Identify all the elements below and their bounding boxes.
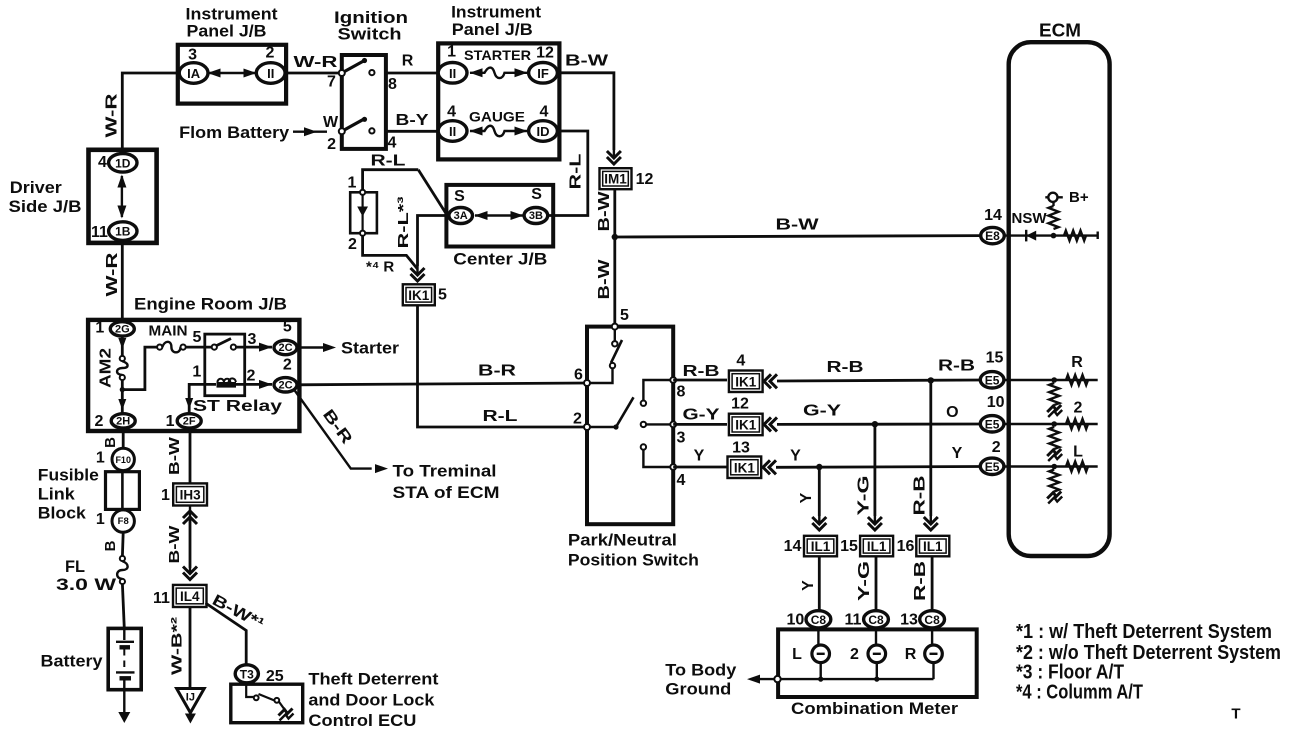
ground hatch row3: [1047, 492, 1061, 499]
junction Y drop: [816, 464, 822, 470]
svg-text:IM1: IM1: [604, 172, 627, 187]
arrow into IK1 row3: [763, 460, 770, 474]
svg-text:E5: E5: [985, 373, 1000, 387]
ignition switch upper lever: [345, 61, 364, 72]
connector C8 (#2): [864, 611, 889, 628]
connector 2H: [111, 414, 135, 428]
svg-text:Panel J/B: Panel J/B: [452, 20, 533, 39]
svg-text:Link: Link: [38, 485, 76, 504]
svg-text:R-B: R-B: [827, 359, 864, 376]
arrow into IL1 #2: [868, 523, 882, 530]
svg-text:Position Switch: Position Switch: [568, 550, 699, 569]
connector 1B: [109, 222, 137, 241]
svg-text:IA: IA: [187, 66, 201, 81]
svg-text:12: 12: [536, 45, 554, 62]
svg-text:3.0 W: 3.0 W: [56, 575, 117, 594]
wire W-R from II to ignition switch pin 7: [285, 72, 342, 75]
wire B-W to ECM E8: [615, 236, 981, 237]
fuse F8: [112, 510, 134, 532]
connector IL1 (#3): [916, 536, 949, 557]
svg-text:4: 4: [447, 104, 456, 121]
svg-text:2C: 2C: [278, 342, 292, 354]
svg-text:L: L: [792, 646, 802, 663]
connector IA: [179, 63, 208, 84]
svg-text:Starter: Starter: [341, 339, 399, 358]
svg-text:ST Relay: ST Relay: [193, 398, 282, 415]
PNP throw contact R: [641, 401, 646, 406]
wire R-B drop to IL1: [929, 380, 932, 516]
wire Y from E5 to IK1 row3: [776, 465, 982, 469]
svg-text:15: 15: [840, 538, 858, 555]
connector ID: [529, 121, 558, 142]
svg-text:16: 16: [897, 538, 915, 555]
connector 2C (relay row): [274, 378, 297, 392]
wire B-W from IF to IM1: [557, 73, 614, 150]
svg-text:R: R: [402, 53, 414, 70]
svg-text:1: 1: [96, 450, 105, 467]
ignition switch box: [342, 55, 386, 149]
svg-text:4: 4: [388, 135, 397, 152]
svg-text:W-R: W-R: [104, 252, 121, 297]
svg-text:14: 14: [984, 207, 1002, 224]
wire B-W*1 from IL4 to T3: [206, 603, 247, 665]
wire from filter pin 2 to IK1 (*4 R path): [363, 236, 418, 269]
svg-text:R-B: R-B: [938, 358, 975, 375]
svg-text:IL1: IL1: [923, 539, 943, 554]
svg-text:Control ECU: Control ECU: [308, 711, 416, 730]
internal link arrow 1D-1B: [121, 176, 123, 217]
ground arrow below IJ: [185, 714, 196, 724]
arrow into IK1 row1: [764, 374, 771, 388]
svg-text:10: 10: [987, 394, 1005, 411]
resistor in E8 row: [1064, 231, 1086, 241]
junction block: Driver Side J/B box: [89, 150, 157, 243]
svg-text:2: 2: [348, 236, 357, 253]
PNP pin 6 contact: [584, 380, 590, 386]
wire battery to ground: [123, 690, 125, 713]
wire 2C to Starter arrow: [297, 346, 327, 348]
resistor in row2: [1066, 419, 1088, 429]
svg-text:W-R: W-R: [294, 54, 339, 71]
ST relay coil: [217, 382, 237, 388]
svg-text:GAUGE: GAUGE: [469, 109, 525, 125]
connector 2G: [110, 322, 134, 336]
indicator lamp L: [812, 645, 830, 663]
svg-text:B-R: B-R: [478, 363, 517, 380]
wire B from 2H to F10: [122, 428, 125, 449]
svg-text:R-L: R-L: [483, 408, 518, 425]
svg-text:Center J/B: Center J/B: [453, 250, 547, 269]
svg-text:B: B: [102, 540, 119, 551]
junction block: Engine Room J/B box: [88, 320, 299, 431]
fuse F10: [112, 448, 134, 470]
svg-text:IL4: IL4: [180, 589, 200, 604]
svg-text:R-B: R-B: [683, 363, 720, 380]
svg-text:2: 2: [266, 45, 275, 62]
B+ terminal: [1048, 193, 1057, 202]
svg-text:13: 13: [732, 440, 750, 457]
connector IL1 (#2): [860, 536, 893, 557]
svg-text:*⁴ R: *⁴ R: [366, 259, 394, 276]
svg-text:Y-G: Y-G: [856, 476, 873, 516]
connector II pin 1 (starter row): [438, 63, 467, 84]
ST relay switch contact left: [212, 345, 217, 350]
arrow into IL1 #3: [924, 523, 938, 530]
ground bus in combination meter: [820, 663, 822, 680]
wire coil to 2C (relay row): [236, 383, 272, 386]
wire to terminal STA of ECM: [294, 390, 372, 469]
svg-text:Panel J/B: Panel J/B: [187, 22, 267, 41]
wire E8 row inside ECM: [1003, 234, 1098, 236]
svg-text:B-Y: B-Y: [396, 112, 429, 129]
arrow into IL1 #1: [812, 523, 826, 530]
svg-text:6: 6: [574, 367, 583, 384]
svg-text:II: II: [449, 124, 456, 139]
svg-text:IK1: IK1: [735, 417, 757, 432]
theft ECU internal switch: [246, 683, 253, 697]
arrow down into IL4: [183, 573, 197, 580]
junction row2 divider: [1051, 421, 1057, 427]
body ground junction: [774, 676, 780, 682]
wire 2G down to AM2 fusible link: [121, 336, 124, 356]
svg-text:2C: 2C: [278, 379, 292, 391]
svg-text:IL1: IL1: [811, 539, 831, 554]
svg-text:Y: Y: [694, 448, 705, 465]
svg-text:ECM: ECM: [1039, 21, 1081, 41]
svg-text:Switch: Switch: [338, 25, 402, 44]
svg-text:8: 8: [388, 76, 397, 93]
junction block: Instrument Panel J/B (left) box: [178, 45, 286, 104]
svg-text:1: 1: [95, 320, 104, 337]
ignition switch upper pole contact pin 7: [339, 70, 345, 76]
component: Park/Neutral Position Switch box: [587, 327, 673, 525]
arrow into IM1: [607, 157, 621, 164]
component: Combination Meter box: [778, 629, 977, 697]
ground hatch row1: [1047, 405, 1061, 412]
wire B-W from IM1 down to park/neutral pin 5: [613, 189, 616, 324]
svg-text:5: 5: [283, 319, 292, 336]
PNP pin 8 contact: [670, 377, 676, 383]
svg-text:C8: C8: [868, 613, 884, 627]
svg-text:8: 8: [677, 384, 686, 401]
GAUGE internal link wave: [470, 126, 527, 137]
connector IL4: [173, 585, 207, 607]
svg-text:STARTER: STARTER: [464, 47, 531, 63]
svg-text:5: 5: [438, 287, 447, 304]
svg-text:F10: F10: [115, 455, 131, 465]
fusible link FL 3.0W: [120, 556, 125, 561]
connector E5 (row 1): [980, 372, 1004, 388]
battery B1: [108, 628, 141, 689]
svg-text:4: 4: [736, 353, 745, 370]
svg-text:2: 2: [573, 411, 582, 428]
svg-text:*4 : Columm A/T: *4 : Columm A/T: [1016, 682, 1143, 704]
wire W-R from connector IA to Driver Side J/B 1D: [122, 73, 179, 153]
svg-text:Y: Y: [952, 445, 963, 462]
svg-text:*1 : w/ Theft Deterrent System: *1 : w/ Theft Deterrent System: [1016, 621, 1272, 643]
wire B-W from 2F to IH3: [189, 428, 192, 483]
connector 2C (starter row): [274, 340, 297, 354]
wire R-B pin 8 to IK1: [673, 379, 727, 382]
svg-text:4: 4: [98, 154, 107, 171]
svg-text:II: II: [267, 66, 274, 81]
junction at NSW pull-up: [1051, 233, 1057, 239]
svg-text:1D: 1D: [115, 156, 131, 170]
wire R-L from IK1 to PNP pin 2: [418, 305, 585, 427]
wire to body ground arrow: [758, 678, 774, 680]
svg-text:Y-G: Y-G: [856, 561, 873, 601]
svg-text:II: II: [449, 66, 456, 81]
svg-text:B-W: B-W: [776, 217, 820, 234]
svg-text:11: 11: [845, 612, 862, 629]
wire branch to MAIN fusible link: [122, 347, 158, 390]
resistor divider row1: [1049, 383, 1059, 405]
arrow into IK1 (top): [411, 274, 425, 281]
svg-text:4: 4: [540, 104, 549, 121]
svg-text:5: 5: [193, 329, 202, 346]
component: Theft Deterrent and Door Lock Control ECU box: [231, 684, 303, 723]
wire B-R from 2C to park/neutral switch pin 6: [297, 383, 587, 385]
connector IK1 (ignition key row): [403, 284, 435, 305]
junction at AM2 branch: [120, 387, 125, 392]
svg-text:2: 2: [283, 357, 292, 374]
wire C8#1 to lamp L: [817, 628, 819, 647]
svg-text:IL1: IL1: [867, 539, 887, 554]
svg-text:B-W: B-W: [596, 190, 613, 231]
svg-text:ID: ID: [537, 124, 550, 139]
wire C8#2 to lamp 2: [875, 628, 877, 647]
wire diagonal R-L to Center J/B 3A: [418, 170, 446, 215]
wire B-W from IH3 to IL4: [189, 516, 192, 568]
ground hatch in theft ECU: [279, 709, 293, 716]
svg-text:3: 3: [248, 331, 257, 348]
PNP pin 2 contact: [584, 424, 590, 430]
svg-text:IH3: IH3: [180, 487, 202, 502]
svg-text:IF: IF: [537, 66, 549, 81]
svg-text:W-R: W-R: [104, 93, 121, 138]
svg-text:R-B: R-B: [912, 476, 929, 516]
svg-text:R-B: R-B: [912, 561, 929, 601]
svg-text:*3 : Floor A/T: *3 : Floor A/T: [1016, 662, 1124, 684]
svg-text:2H: 2H: [116, 415, 130, 427]
svg-text:W: W: [323, 114, 339, 131]
wire R-B from IL1 to C8 #3: [931, 556, 934, 611]
svg-text:C8: C8: [811, 613, 827, 627]
wire R from pin 8 to Instrument Panel J/B (right): [386, 72, 438, 75]
resistor in row3: [1066, 462, 1088, 472]
connector II pin 4 (gauge row): [438, 121, 467, 142]
junction row3 divider: [1051, 464, 1057, 470]
resistor pull-up to B+: [1049, 206, 1059, 229]
svg-text:2: 2: [247, 368, 256, 385]
wire B-Y from pin 4 to GAUGE II: [386, 130, 438, 133]
From Battery arrow: [293, 130, 327, 132]
svg-text:3: 3: [188, 47, 197, 64]
wire stub to 3A with vertical drop: [418, 216, 450, 267]
ignition switch lower pole contact pin 2: [339, 128, 345, 134]
svg-text:IK1: IK1: [408, 288, 430, 303]
svg-text:3A: 3A: [454, 210, 468, 222]
svg-text:T3: T3: [240, 667, 254, 681]
svg-text:Y: Y: [800, 580, 817, 591]
svg-text:STA of ECM: STA of ECM: [393, 483, 500, 502]
wire Y from IL1 to C8 #1: [818, 556, 821, 611]
connector E5 (row 2): [980, 416, 1004, 432]
connector IF: [529, 63, 558, 84]
svg-text:Fusible: Fusible: [38, 466, 99, 485]
PNP pin 5 contact: [612, 324, 618, 330]
svg-text:B+: B+: [1069, 189, 1089, 206]
svg-text:15: 15: [986, 350, 1004, 367]
svg-text:13: 13: [900, 612, 918, 629]
svg-text:G-Y: G-Y: [803, 403, 841, 420]
svg-text:B-W: B-W: [166, 524, 183, 563]
svg-text:14: 14: [784, 538, 802, 555]
svg-text:B: B: [102, 437, 119, 448]
wire E5 row 3 inside ECM: [1003, 465, 1098, 467]
ignition switch lower fixed contact: [369, 128, 374, 133]
svg-text:R-L*³: R-L*³: [395, 197, 412, 249]
wire R-L loop to noise filter and 3A: [363, 170, 419, 190]
connector C8 (#3): [920, 611, 945, 628]
svg-text:1: 1: [192, 364, 201, 381]
internal link arrow IA-II: [208, 72, 256, 74]
svg-text:C8: C8: [924, 613, 940, 627]
wire FL to battery: [122, 584, 124, 628]
svg-text:Theft Deterrent: Theft Deterrent: [308, 670, 438, 689]
connector IH3: [173, 483, 207, 505]
connector IM1: [600, 168, 632, 189]
svg-text:Engine Room J/B: Engine Room J/B: [134, 295, 287, 314]
connector 1D: [109, 154, 137, 173]
svg-text:2: 2: [992, 439, 1001, 456]
svg-text:1: 1: [447, 44, 456, 61]
junction R-B drop: [928, 377, 934, 383]
connector 3A: [449, 208, 473, 224]
arrow up into IH3: [183, 511, 197, 518]
noise filter element: [362, 195, 364, 230]
STARTER internal link wave: [470, 68, 527, 79]
ST relay box: [205, 334, 245, 396]
svg-text:IK1: IK1: [734, 460, 756, 475]
connector IL1 (#1): [804, 536, 837, 557]
svg-text:7: 7: [327, 74, 336, 91]
wire E5 row 1 inside ECM: [1003, 379, 1098, 381]
svg-text:S: S: [531, 186, 542, 203]
connector 2F: [177, 414, 201, 428]
junction Y-G drop: [872, 421, 878, 427]
ST relay switch lever: [217, 339, 232, 346]
svg-text:B-W: B-W: [166, 436, 183, 475]
arrow into IK1 row2: [764, 417, 771, 431]
svg-text:IJ: IJ: [186, 692, 195, 704]
junction block: Instrument Panel J/B (right) box: [438, 43, 559, 159]
connector E5 (row 3): [980, 458, 1004, 474]
svg-text:2: 2: [94, 413, 103, 430]
PNP selector wire from pin 2: [590, 426, 616, 428]
svg-text:Side J/B: Side J/B: [9, 197, 82, 216]
connector IK1 (row 2): [729, 414, 763, 436]
svg-text:2F: 2F: [183, 415, 196, 427]
junction block: Center J/B box: [446, 185, 553, 247]
svg-text:R: R: [905, 646, 917, 663]
svg-text:To Treminal: To Treminal: [393, 462, 497, 481]
svg-text:10: 10: [787, 612, 805, 629]
wire R-L from ID down to 3B: [548, 131, 588, 216]
wire Y-G drop to IL1: [874, 424, 877, 516]
svg-text:Driver: Driver: [10, 178, 62, 197]
resistor divider row2: [1049, 427, 1059, 449]
ignition switch lower lever: [345, 119, 364, 130]
svg-text:25: 25: [266, 668, 284, 685]
wire C8#3 to lamp R: [931, 628, 933, 647]
PNP throw contact L: [641, 444, 646, 449]
svg-text:Ground: Ground: [665, 680, 731, 699]
wire AM2 to 2H with branch junction: [121, 380, 124, 414]
svg-text:AM2: AM2: [98, 348, 115, 388]
svg-text:1: 1: [161, 487, 170, 504]
PNP selector lever: [616, 397, 634, 427]
svg-text:12: 12: [636, 171, 654, 188]
internal link arrow 3A-3B: [475, 214, 523, 216]
svg-text:11: 11: [91, 224, 108, 241]
fusible link AM2: [120, 356, 125, 361]
svg-text:1B: 1B: [115, 225, 131, 239]
connector T3: [235, 665, 258, 683]
wire W-B*2 from IL4 to IJ ground: [189, 607, 192, 688]
noise filter box: [350, 192, 377, 233]
svg-text:Combination Meter: Combination Meter: [791, 699, 958, 718]
svg-text:W-B*²: W-B*²: [169, 617, 186, 675]
connector II (panel left): [256, 63, 285, 84]
svg-text:3: 3: [677, 430, 686, 447]
svg-text:Flom Battery: Flom Battery: [179, 123, 290, 142]
svg-text:Park/Neutral: Park/Neutral: [568, 531, 677, 550]
connector C8 (#1): [806, 611, 831, 628]
ignition switch upper fixed contact: [369, 70, 374, 75]
wire Y pin 4 to IK1: [673, 466, 727, 469]
svg-text:O: O: [946, 404, 958, 421]
resistor divider row3: [1049, 470, 1059, 492]
fusible link MAIN: [157, 345, 162, 350]
svg-text:NSW: NSW: [1012, 210, 1048, 227]
ground point IJ: [177, 689, 205, 713]
svg-text:R: R: [1071, 354, 1083, 371]
svg-text:1: 1: [166, 413, 175, 430]
svg-text:FL: FL: [65, 557, 85, 576]
resistor in row1: [1066, 375, 1088, 385]
svg-text:R-L: R-L: [371, 153, 406, 170]
junction row1 divider: [1051, 377, 1057, 383]
junction B-W branch to E8: [612, 234, 618, 240]
ground at battery: [118, 712, 130, 723]
PNP throw contact 2: [641, 422, 646, 427]
wire 2F up to relay coil: [189, 384, 216, 414]
connector IK1 (row 1): [729, 371, 763, 393]
component: ECM box: [1009, 42, 1110, 556]
svg-text:11: 11: [153, 590, 170, 607]
svg-text:Y: Y: [798, 492, 815, 503]
wire B from F8 to FL: [121, 532, 125, 556]
svg-text:E8: E8: [985, 229, 1000, 243]
svg-text:E5: E5: [985, 460, 1000, 474]
wire E5 row 2 inside ECM: [1003, 423, 1098, 425]
diode NSW: [1025, 230, 1027, 242]
svg-text:R-L: R-L: [568, 153, 585, 189]
wire R-B from E5 to IK1 row1: [777, 380, 982, 381]
svg-text:T: T: [1231, 706, 1240, 723]
svg-text:S: S: [454, 188, 465, 205]
